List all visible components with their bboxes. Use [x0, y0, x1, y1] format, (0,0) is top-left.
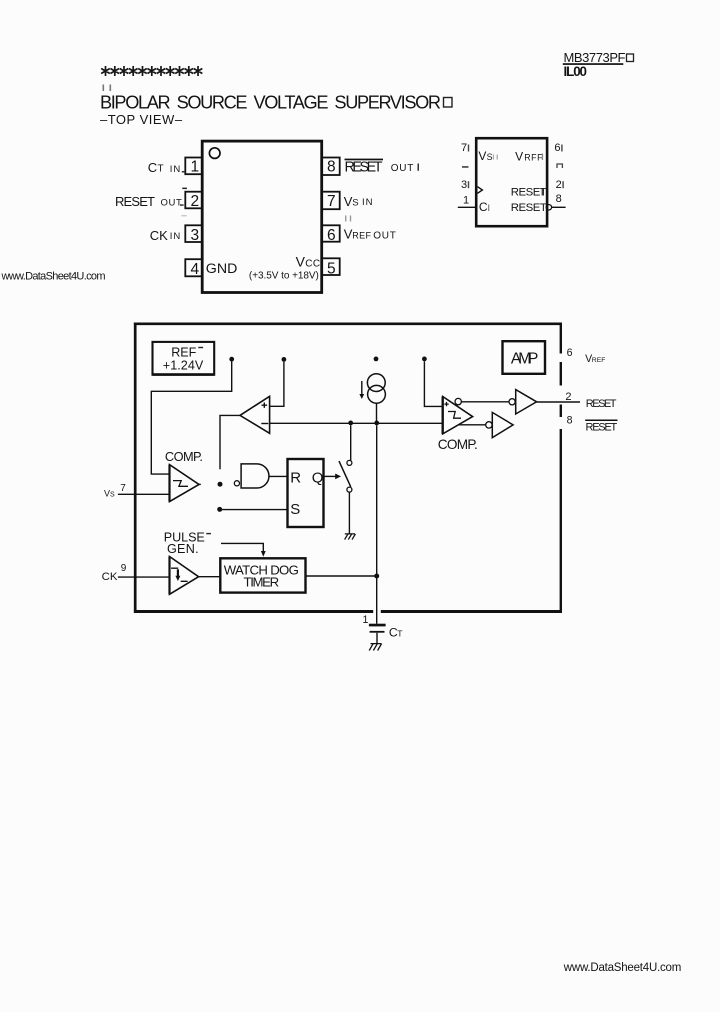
- svg-text:8: 8: [327, 159, 336, 176]
- wire current source to bus: [376, 403, 378, 421]
- svg-text:BIPOLAR SOURCE VOLTAGE SUPE: BIPOLAR SOURCE VOLTAGE SUPERVISOR: [100, 93, 441, 113]
- AND gate input bubble: [234, 481, 239, 486]
- part number underline: [563, 63, 624, 65]
- frame right edge: [560, 323, 562, 612]
- header asterisks: [101, 66, 202, 76]
- svg-text:7: 7: [327, 193, 336, 210]
- wire comparator lower output: [458, 424, 486, 426]
- pin 8 label RESET overline: [585, 420, 617, 422]
- svg-text:www.DataSheet4U.com: www.DataSheet4U.com: [563, 962, 682, 974]
- node dot (S input): [217, 507, 222, 512]
- svg-text:T: T: [397, 629, 403, 639]
- frame top edge: [134, 322, 562, 325]
- svg-text:REF: REF: [592, 357, 606, 364]
- pin 7 wire Vs input: [118, 493, 170, 495]
- node dot (switch branch): [348, 421, 353, 426]
- node dot (AND input): [218, 482, 223, 487]
- svg-text:CC: CC: [305, 258, 320, 269]
- svg-text:S: S: [352, 198, 358, 209]
- left comparator hysteresis mark: [173, 481, 188, 487]
- wire op-amp output down: [220, 415, 240, 469]
- pin1 indicator circle: [209, 148, 220, 159]
- buffer2 input bubble: [486, 422, 492, 428]
- svg-text:2: 2: [565, 391, 571, 403]
- svg-text:9: 9: [121, 563, 127, 574]
- svg-text:6: 6: [327, 227, 336, 244]
- svg-text:C: C: [479, 200, 488, 214]
- capacitor CT bottom plate: [370, 631, 385, 633]
- frame left edge: [134, 323, 137, 613]
- svg-text:IN: IN: [362, 197, 374, 208]
- wire arrow into watchdog top: [221, 543, 263, 551]
- pin 2 box: [185, 192, 202, 209]
- svg-text:CK: CK: [102, 571, 118, 583]
- svg-text:–TOP VIEW–: –TOP VIEW–: [100, 112, 183, 127]
- svg-text:RESET: RESET: [115, 194, 155, 209]
- wire REF net to left comparator: [151, 362, 231, 475]
- pulse waveform mark: [171, 568, 188, 581]
- small tick marks under Vs IN: [345, 216, 346, 222]
- svg-text:S: S: [487, 152, 493, 162]
- pin 8 bubble: [546, 205, 551, 210]
- Q output arrow: [324, 475, 337, 477]
- svg-text:RESET: RESET: [586, 421, 618, 433]
- svg-text:V: V: [515, 149, 523, 163]
- svg-text:S: S: [290, 501, 300, 518]
- svg-text:R: R: [290, 470, 301, 487]
- AMP box: [503, 341, 546, 374]
- wire rail to comparator + input: [424, 361, 442, 406]
- switch lever: [339, 461, 351, 487]
- wire comparator to buffer: [461, 401, 509, 403]
- current source arrow: [361, 381, 363, 395]
- frame bottom edge: [134, 610, 562, 613]
- svg-text:COMP.: COMP.: [165, 449, 203, 464]
- node dot (current source rail): [374, 357, 379, 362]
- comparator hysteresis mark: [448, 412, 461, 419]
- svg-text:1: 1: [191, 159, 200, 176]
- svg-text:GEN.: GEN.: [167, 542, 199, 556]
- svg-text:AMP: AMP: [511, 350, 539, 367]
- svg-text:RESET: RESET: [586, 398, 617, 410]
- package body: [202, 141, 322, 292]
- svg-text:MB3773PF: MB3773PF: [564, 50, 626, 65]
- svg-text:2: 2: [191, 193, 200, 210]
- svg-text:OUT: OUT: [373, 231, 396, 242]
- pin 7 box: [322, 192, 340, 210]
- pin 8 wire: [552, 206, 566, 208]
- svg-text:T: T: [158, 164, 164, 175]
- header tick marks: [103, 85, 105, 92]
- wire rail to op-amp + input: [270, 362, 284, 407]
- label RESET OUT with overline (pin8): [345, 159, 384, 161]
- svg-text:RESET: RESET: [511, 202, 547, 214]
- pin 6 box: [322, 225, 340, 241]
- AND gate U7: [241, 464, 269, 488]
- svg-text:5: 5: [327, 260, 336, 277]
- pin 9 wire CK input: [118, 576, 170, 578]
- pin 1 wire: [458, 206, 476, 208]
- pin 3 box: [185, 225, 202, 242]
- switch SW1 top contact: [347, 460, 352, 465]
- svg-text:3: 3: [461, 179, 467, 191]
- svg-text:8: 8: [556, 193, 562, 205]
- node dot (op-amp rail): [282, 357, 287, 362]
- svg-text:IL00: IL00: [564, 64, 588, 79]
- svg-text:IN: IN: [170, 164, 182, 175]
- buffer U4: [516, 390, 537, 414]
- svg-text:RESET: RESET: [345, 160, 383, 176]
- wire capacitor to ground: [376, 633, 378, 644]
- svg-text:8: 8: [567, 414, 573, 426]
- pin 8 box: [322, 158, 340, 176]
- pin 1 box: [185, 158, 202, 175]
- svg-text:OUT: OUT: [161, 197, 183, 208]
- ground (switch): [345, 534, 356, 540]
- flip-flop U8: [288, 459, 324, 527]
- node dot (REF rail): [229, 357, 234, 362]
- op-amp plus mark: [262, 403, 268, 408]
- wire watchdog output: [306, 575, 377, 577]
- watchdog timer box: [220, 558, 305, 592]
- comparator plus mark: [444, 402, 448, 406]
- Pi mark: [557, 164, 562, 168]
- node dot (CT net): [374, 574, 379, 579]
- svg-text:RESET: RESET: [511, 187, 547, 199]
- svg-text:(+3.5V to +18V): (+3.5V to +18V): [249, 270, 319, 281]
- pulse generator U9: [170, 557, 199, 595]
- wire to S input: [220, 509, 288, 511]
- comparator U3: [443, 397, 473, 434]
- wire to RESET pin 2: [537, 401, 580, 403]
- wire switch to ground: [348, 492, 350, 534]
- wire pulse gen to watchdog: [199, 576, 221, 578]
- pin 4 box: [185, 259, 202, 276]
- part number box mark: [627, 54, 634, 62]
- faint dash mark: [181, 215, 186, 216]
- ground (CT): [369, 644, 381, 651]
- svg-text:6: 6: [567, 347, 573, 359]
- svg-text:7: 7: [120, 483, 126, 494]
- node dot (comp rail): [422, 357, 427, 362]
- svg-text:IN: IN: [170, 231, 182, 242]
- svg-text:V: V: [478, 149, 486, 163]
- pin 5 box: [322, 258, 340, 275]
- svg-text:7: 7: [461, 142, 467, 154]
- svg-text:3: 3: [191, 227, 200, 244]
- op-amp U2 (left pointing): [240, 396, 270, 433]
- buffer input bubble: [509, 399, 515, 405]
- dash mark: [462, 166, 469, 168]
- svg-text:4: 4: [191, 261, 200, 278]
- svg-text:REF: REF: [171, 346, 196, 360]
- capacitor CT top plate: [369, 624, 386, 627]
- title trailing box mark: [444, 98, 453, 108]
- svg-text:www.DataSheet4U.com: www.DataSheet4U.com: [1, 271, 106, 283]
- svg-text:+1.24V: +1.24V: [163, 359, 204, 373]
- svg-text:Q: Q: [312, 470, 324, 487]
- left comparator output stub: [199, 483, 201, 485]
- op-amp minus mark: [261, 423, 268, 425]
- buffer U5: [492, 412, 513, 437]
- svg-text:OUT: OUT: [391, 163, 414, 174]
- svg-text:V: V: [296, 253, 306, 269]
- svg-text:CK: CK: [150, 228, 168, 243]
- svg-text:RFF: RFF: [524, 152, 543, 162]
- switch bottom contact: [347, 487, 352, 492]
- wire bus down to CT: [376, 425, 378, 623]
- svg-text:S: S: [110, 491, 115, 498]
- svg-text:1: 1: [463, 194, 469, 206]
- svg-text:REF: REF: [352, 231, 371, 241]
- wire main bus: [270, 422, 443, 424]
- svg-text:C: C: [148, 160, 157, 175]
- svg-text:GND: GND: [206, 261, 238, 277]
- wire AND output to R: [269, 475, 288, 477]
- clock triangle on pin 3: [478, 187, 483, 194]
- svg-text:1: 1: [363, 614, 369, 626]
- current source I1: [367, 374, 385, 392]
- svg-text:2: 2: [556, 179, 562, 191]
- svg-text:COMP.: COMP.: [438, 437, 478, 452]
- node dot (CT branch): [374, 421, 379, 426]
- svg-text:TIMER: TIMER: [244, 575, 280, 590]
- svg-text:6: 6: [554, 142, 560, 154]
- wire bus to switch: [350, 425, 352, 460]
- REF box: [153, 342, 215, 375]
- left comparator U6: [170, 465, 200, 502]
- bubble on comparator top output: [455, 398, 461, 404]
- symbol box U1: [476, 138, 547, 226]
- label RESET OUT (pin2): [182, 188, 187, 190]
